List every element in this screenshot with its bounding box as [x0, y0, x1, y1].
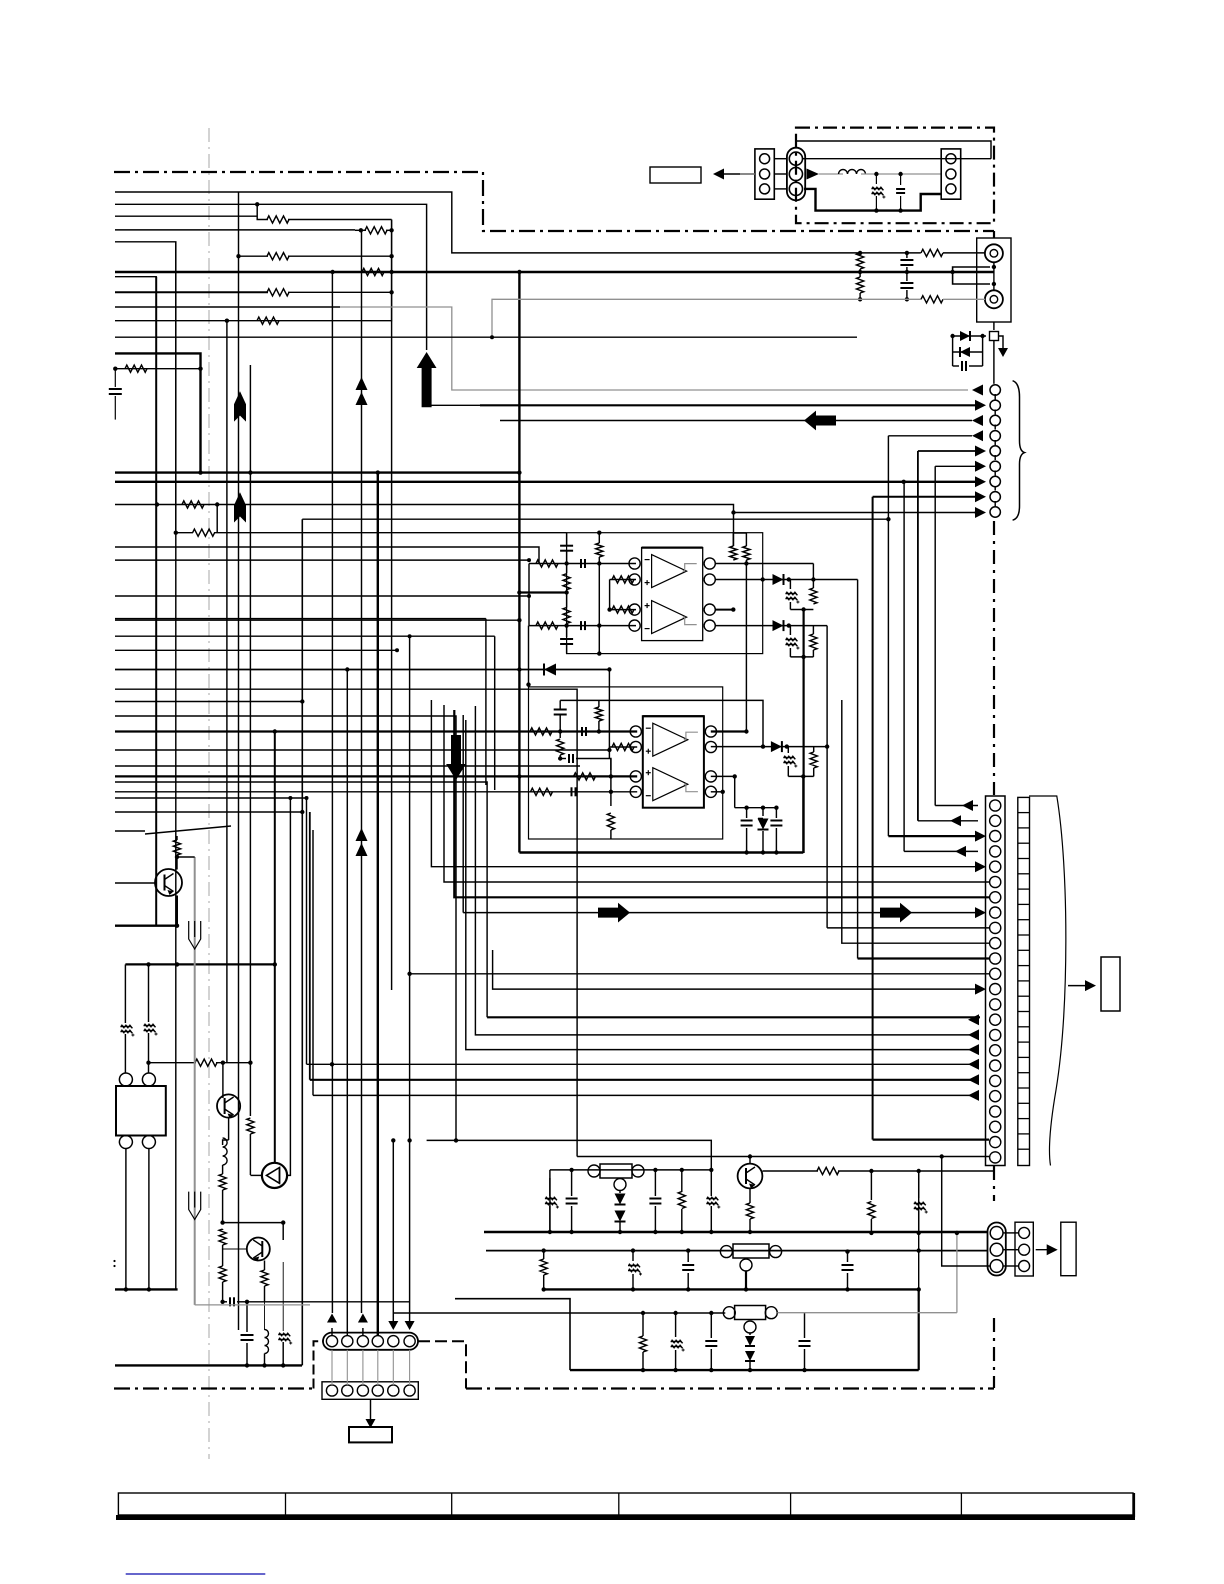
junction dot	[527, 594, 531, 598]
junction dot	[262, 1363, 266, 1367]
capacitor C-el vr1a	[549, 1169, 551, 1171]
op-amp U1.1 plus mark	[645, 582, 650, 584]
junction dot	[802, 1368, 806, 1372]
wire res2 bottom	[745, 560, 747, 732]
wire row 519 to upper conn	[302, 518, 888, 520]
wire q1 collector	[176, 857, 178, 870]
wire pin8 lead	[873, 496, 978, 498]
signal rocket arrow 2	[234, 492, 246, 522]
wire p19 vert	[309, 812, 311, 1080]
connector CN-UP pin5	[990, 446, 1000, 456]
op-amp U1 package outline	[642, 548, 703, 641]
wire U2 out4	[711, 791, 723, 793]
wire U2 out2	[711, 746, 827, 748]
arrowhead up pin1	[327, 1314, 337, 1323]
connector CN-MAIN pin7	[990, 892, 1001, 903]
voltage regulator VR3 gnd pin	[744, 1321, 756, 1333]
wire vr3 gray out	[777, 1312, 957, 1314]
signal arrow out to label	[718, 173, 755, 175]
junction dot	[631, 1287, 635, 1291]
wire p6 from left	[115, 618, 486, 620]
junction dot	[248, 470, 252, 474]
connector CN-BOT2 pin4	[372, 1385, 383, 1396]
wire u1out4 down	[826, 626, 828, 928]
capacitor C-rca1	[906, 253, 908, 258]
capacitor C-el electrolytic	[875, 174, 877, 184]
wire row 731 thick opamp2 in	[115, 730, 533, 732]
junction dot	[709, 1168, 713, 1172]
op-amp U2.1 plus mark	[646, 750, 651, 752]
signal big arrow right B	[880, 903, 912, 923]
junction dot	[761, 577, 765, 581]
resistor R-m1	[182, 501, 204, 508]
junction dot	[175, 924, 179, 928]
wire VR2 gnd thick	[745, 1271, 747, 1289]
resistor R-q4e vertical	[749, 1188, 751, 1203]
junction dot	[517, 774, 521, 778]
capacitor C-rca2	[906, 272, 908, 281]
junction dot	[597, 651, 601, 655]
signal flow big arrow up	[417, 352, 437, 407]
junction dot	[220, 1220, 224, 1224]
resistor R-lad5	[267, 289, 289, 296]
op-amp U2.1 minus mark	[646, 727, 651, 729]
resistor R-chain3 vertical	[219, 1266, 226, 1282]
junction dot	[517, 667, 521, 671]
wire cluster mid	[953, 351, 983, 353]
capacitor C-u2in4	[571, 787, 573, 796]
wire z2 bottom rail	[790, 656, 813, 658]
op-amp U1.2 minus mark	[645, 628, 650, 630]
wire U1 out1	[715, 563, 813, 565]
junction dot	[564, 561, 568, 565]
connector CN-MAIN pin22	[990, 1121, 1001, 1132]
connector CN-B pin2	[789, 167, 802, 180]
photo transistor Q6 triangle	[267, 1168, 280, 1184]
junction dot	[686, 1248, 690, 1252]
junction dot	[389, 270, 393, 274]
footer table column separator	[285, 1493, 287, 1515]
wire res feed	[733, 513, 735, 547]
junction dot	[858, 270, 862, 274]
junction dot	[564, 590, 568, 594]
junction dot	[748, 1368, 752, 1372]
resistor R-vr2 vertical	[543, 1251, 545, 1259]
resistor R-u1in3	[612, 606, 634, 613]
wire top inner loop	[796, 141, 991, 159]
wire row 750	[115, 749, 609, 751]
junction dot	[641, 1311, 645, 1315]
wire out1 corner	[812, 564, 814, 580]
connector CN-BOT oval shell	[323, 1333, 418, 1350]
connector CN-C pin2	[946, 169, 956, 179]
junction dot	[858, 251, 862, 255]
board outline dash-dot bottom left	[114, 1387, 313, 1389]
wire audio gray R cont	[340, 307, 968, 390]
connector CN-BOT2 pin3	[357, 1385, 368, 1396]
capacitor C-vr3a	[710, 1313, 712, 1338]
resistor R-q4c	[817, 1167, 839, 1174]
resistor R-u1z vertical	[810, 588, 817, 604]
footer table frame	[118, 1493, 1133, 1515]
junction dot	[744, 1287, 748, 1291]
wire p11 lead thick	[858, 957, 989, 959]
bus wire thick lower	[115, 481, 978, 483]
connector CN-A pin3	[760, 184, 770, 194]
wire U2 pin2 row	[609, 746, 637, 748]
wire cluster top	[953, 335, 986, 337]
junction dot	[407, 1138, 411, 1142]
wire chain	[566, 533, 568, 545]
arrowhead out p4	[959, 850, 960, 852]
junction dot	[680, 1230, 684, 1234]
junction dot	[198, 367, 202, 371]
junction dot	[917, 1231, 921, 1235]
diode D-vr3a	[745, 1336, 755, 1346]
junction dot	[641, 1368, 645, 1372]
op-amp U2 output pin circle 1	[705, 726, 716, 737]
wire res tops	[732, 533, 734, 546]
resistor R-rca2	[921, 296, 943, 303]
transistor Q7	[247, 1238, 270, 1261]
connector CN-MAIN pin4	[990, 846, 1001, 857]
wire CN-R joins	[1003, 1232, 1019, 1234]
wire q1 emitter	[176, 896, 178, 926]
voltage regulator VR2 gnd pin	[740, 1259, 752, 1271]
connector CN-MAIN pin24	[990, 1152, 1001, 1163]
wire chain	[222, 1190, 224, 1223]
wire jack centre link	[993, 262, 995, 290]
wire thick row y964	[125, 963, 274, 965]
diode D-vr1b	[615, 1211, 626, 1222]
wire row 798	[115, 797, 307, 799]
op-amp U1.2 internal wiring	[683, 617, 697, 625]
connector CN-BOT2 pin1	[326, 1385, 337, 1396]
wire rail1370 thick	[570, 1369, 919, 1371]
connector CN-MAIN body	[986, 796, 1006, 1166]
wire line y337	[115, 336, 857, 338]
junction dot	[607, 607, 611, 611]
junction dot	[569, 1230, 573, 1234]
wire row 776 thick opamp2 in	[115, 775, 577, 777]
wire thick row 925	[115, 925, 177, 927]
arrowhead out p16	[972, 1034, 973, 1036]
wire J2 in	[943, 298, 985, 300]
connector CN-BOT2 pin6	[404, 1385, 415, 1396]
wire x904 vertical	[903, 482, 905, 852]
wire coil bot	[264, 1354, 266, 1366]
capacitor C-b1	[241, 1334, 254, 1336]
wire row 1222	[223, 1222, 284, 1224]
connector CN-R2 pin3	[1019, 1261, 1030, 1272]
board outline dash-dot jog right of CN plug	[418, 1341, 466, 1388]
wire y1140 feed	[427, 1140, 712, 1170]
voltage regulator VR3 right pin	[765, 1307, 777, 1319]
arrowhead out p15	[972, 1019, 973, 1021]
wire audio thick L	[115, 271, 994, 273]
resistor R-u1a vertical	[563, 574, 570, 590]
wire jack stub down	[953, 272, 990, 284]
arrow to display	[1036, 1249, 1053, 1251]
junction dot	[609, 790, 613, 794]
resistor R-u2in3	[574, 773, 596, 780]
label box CN	[349, 1427, 392, 1442]
wire vertical x176	[175, 242, 177, 1290]
wire cnbot pin4 lead thick	[377, 473, 379, 1336]
wire vertical x156 thick	[155, 277, 157, 926]
capacitor C-u2b row	[560, 758, 566, 760]
diode D-mid pointing left	[544, 664, 556, 676]
wire p7 lead thick	[454, 710, 989, 897]
junction dot	[564, 623, 568, 627]
signal chevron arrow 2	[356, 828, 368, 841]
junction dot	[653, 1168, 657, 1172]
junction dot	[558, 756, 562, 760]
resistor R-lad2	[365, 227, 387, 234]
junction dot	[950, 270, 954, 274]
op-amp U2.1 internal wiring	[684, 732, 698, 740]
junction dot	[395, 648, 399, 652]
wire q4 collector row	[763, 1170, 819, 1172]
wire row 716 arrow line	[115, 716, 456, 1140]
junction dot	[124, 1287, 128, 1291]
junction dot	[733, 774, 737, 778]
connector CN-UP pin6	[990, 461, 1000, 471]
wire CN-A to CN-B pin1	[774, 158, 787, 160]
capacitor C-vr3b	[804, 1313, 806, 1338]
junction dot	[898, 172, 902, 176]
wire row 766	[115, 765, 580, 767]
wire p20 vert	[312, 830, 314, 1095]
wire pin6 upper vertical	[409, 636, 411, 1140]
wire p16 lead	[475, 706, 975, 1035]
junction dot	[950, 334, 954, 338]
resistor R-u2z vertical	[810, 752, 817, 768]
junction dot	[300, 699, 304, 703]
wire line5 to ladder	[115, 242, 176, 530]
wire CN-A to CN-B pin2	[774, 173, 787, 175]
junction dot	[744, 850, 748, 854]
wire p12 lead	[410, 973, 989, 975]
connector CN-R2 pin1	[1019, 1227, 1030, 1238]
wire p5 lead	[431, 700, 978, 867]
op-amp U2.1 triangle	[653, 723, 688, 756]
connector CN-UP pin4	[990, 431, 1000, 441]
wire cluster left	[952, 336, 954, 366]
arrowhead into filter	[807, 169, 819, 180]
resistor R-u1o2 vertical	[743, 546, 750, 560]
wire p17 lead	[466, 720, 975, 1050]
wire row 620	[115, 619, 519, 621]
diode D-vr1a	[615, 1194, 626, 1205]
wire U1 pin2 row	[610, 579, 636, 581]
resistor R-rcaV1 vertical	[857, 253, 864, 269]
wire x610 vert	[610, 759, 612, 807]
wire pin2 thick lead	[480, 404, 978, 406]
op-amp U2 package outline	[643, 716, 704, 808]
wire p24 lead	[577, 1156, 989, 1158]
junction dot	[389, 254, 393, 258]
connector CN-R2 pin2	[1019, 1244, 1030, 1255]
resistor R-chain1 vertical	[219, 1174, 226, 1190]
junction dot	[774, 806, 778, 810]
capacitor C-u1b	[560, 638, 573, 640]
wire conn stub	[795, 141, 797, 146]
voltage regulator VR2 left pin	[720, 1246, 732, 1258]
junction dot	[905, 251, 909, 255]
connector CN-MAIN pin9	[990, 922, 1001, 933]
wire line2 down with up-arrow	[115, 204, 427, 350]
wire row B	[355, 229, 366, 231]
wire q7 base drop	[282, 1223, 284, 1240]
wire q5 collector	[228, 1118, 230, 1140]
junction dot	[146, 1061, 150, 1065]
switch lever	[145, 826, 231, 834]
connector CN-MAIN pin10	[990, 938, 1001, 949]
connector CN-MAIN pin17	[990, 1045, 1001, 1056]
junction dot	[517, 270, 521, 274]
wire p16 tail	[975, 1034, 978, 1036]
wire u1out2 corner down	[857, 580, 859, 959]
wire supply rail thick	[519, 851, 803, 853]
junction dot	[526, 682, 530, 686]
wire ecap stub	[549, 1178, 551, 1196]
resistor R-lad6	[257, 317, 279, 324]
wire line3	[115, 215, 257, 217]
wire coil drop	[264, 1302, 266, 1330]
wire RCA down to square pad	[993, 322, 995, 330]
connector CN-MAIN pin18	[990, 1060, 1001, 1071]
op-amp U2 shield box	[529, 687, 723, 839]
op-amp U1 output pin circle 3	[704, 604, 715, 615]
connector CN-C pin1	[946, 154, 956, 164]
wire p20 lead	[313, 1094, 978, 1096]
wire diode net drop	[608, 670, 610, 751]
capacitor C-el vr3	[675, 1313, 677, 1337]
connector CN-BOT pin4	[372, 1336, 383, 1347]
ladder row C from vert	[238, 192, 240, 256]
junction dot	[490, 335, 494, 339]
arrowhead out pin4	[976, 435, 977, 437]
wire res row right	[216, 1062, 250, 1064]
op-amp U1.2 plus mark	[645, 605, 650, 607]
wire p13 lead	[493, 950, 978, 989]
wire harness between connectors	[331, 1350, 333, 1385]
wire rail1289 left thick	[115, 1288, 178, 1290]
junction dot	[597, 623, 601, 627]
footer table column separator	[960, 1493, 962, 1515]
junction dot	[281, 1220, 285, 1224]
connector CN-BOT pin3	[357, 1336, 368, 1347]
junction dot	[175, 855, 179, 859]
top-right shielded box dash-dot outline	[796, 128, 994, 224]
op-amp U1.1 triangle	[652, 555, 687, 588]
wire p9 lead	[827, 927, 989, 929]
connector CN-MAIN pin8	[990, 907, 1001, 918]
wire x918 vertical	[918, 1171, 920, 1289]
wire row A to rail	[288, 219, 392, 221]
margin mark	[113, 1260, 115, 1262]
wire row 532 R pair	[176, 532, 193, 534]
wire stair vert b	[485, 619, 487, 785]
connector CN-MAIN pin11	[990, 953, 1001, 964]
wire cap row right	[247, 1301, 410, 1303]
transistor Q4	[738, 1164, 763, 1189]
connector CN-BOT pin5	[388, 1336, 399, 1347]
wire gray J2 row	[492, 299, 921, 337]
wire row 1298 drop	[455, 1299, 570, 1370]
junction dot	[408, 634, 412, 638]
wire row 532 up	[216, 505, 218, 533]
junction dot	[305, 796, 309, 800]
resistor R-u1o1 vertical	[730, 546, 737, 560]
connector CN-UP pin1	[990, 385, 1000, 395]
wire audio gray R	[115, 306, 340, 308]
arrowhead out pin3	[976, 420, 977, 422]
junction dot	[175, 962, 179, 966]
resistor R-pr1 vertical	[870, 1171, 872, 1200]
wire U2 pin4 row	[535, 791, 637, 793]
wire out3 down	[734, 776, 736, 807]
wire p15 arrowlead	[975, 1019, 978, 1021]
wire U2 out1 thick	[711, 730, 747, 732]
junction dot	[631, 1248, 635, 1252]
junction dot	[845, 1287, 849, 1291]
connector CN-MAIN pin2	[990, 815, 1001, 826]
wire rz top	[812, 580, 814, 589]
junction dot	[220, 1300, 224, 1304]
footer table column separator	[618, 1493, 620, 1515]
wire row 1313 main	[393, 1312, 725, 1314]
wire pin3 lead	[500, 420, 972, 422]
wire jack stub up	[953, 267, 990, 272]
capacitor C-u2in1	[581, 727, 583, 736]
junction dot	[245, 1363, 249, 1367]
capacitor C-vr1b	[654, 1170, 656, 1196]
wire p15 thick row	[487, 1016, 980, 1018]
op-amp U1 output pin circle 1	[704, 558, 715, 569]
wire into J1	[943, 252, 985, 254]
wire res top rail	[733, 532, 746, 534]
junction dot	[858, 297, 862, 301]
connector CN-MAIN pin14	[990, 999, 1001, 1010]
junction dot	[731, 510, 735, 514]
wire thick drop x803	[802, 610, 804, 854]
wire chain3	[222, 1282, 224, 1302]
wire line4 row B	[115, 229, 355, 231]
junction dot	[221, 1061, 225, 1065]
wire pin2-pin3 vert	[609, 580, 611, 610]
resistor R-q7e vertical	[264, 1261, 266, 1271]
wire pad to conn	[993, 341, 995, 384]
wire line6	[115, 276, 156, 278]
op-amp U2 output pin circle 2	[705, 741, 716, 752]
wire chain2	[222, 1229, 224, 1230]
wire row 513 to upper conn	[917, 451, 919, 821]
voltage regulator VR3 left pin	[723, 1307, 735, 1319]
wire z bottom rail	[790, 609, 813, 611]
board outline dash-dot border top-left	[114, 172, 994, 231]
bus wire thick upper	[115, 471, 519, 473]
wire R-stub row	[115, 368, 201, 370]
wire resistor row 1062	[149, 1062, 197, 1064]
junction dot	[273, 729, 277, 733]
wire chain3	[566, 624, 568, 638]
junction dot	[517, 470, 521, 474]
wire CN-C pin1 loop	[961, 158, 991, 160]
junction dot	[955, 1231, 959, 1235]
diode D-vr3b	[745, 1351, 755, 1361]
